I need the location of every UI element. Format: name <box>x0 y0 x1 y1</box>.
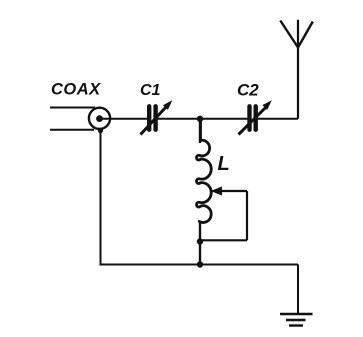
capacitor C1 left plate <box>147 106 151 129</box>
tap wire horizontal <box>218 190 247 192</box>
wire: C1 to C2 <box>158 118 248 120</box>
wire: right vertical to ground <box>297 265 299 314</box>
node: top junction of L <box>197 116 203 122</box>
tap arrow head <box>211 187 223 196</box>
capacitor C1 right plate <box>153 106 157 129</box>
coax connector J1 center pin dot <box>96 115 103 122</box>
svg-text:C1: C1 <box>140 82 161 99</box>
wire: left vertical from coax down <box>100 129 102 265</box>
node: coil bottom / tap return junction <box>197 238 203 244</box>
coax cable bottom line <box>50 129 94 131</box>
ground symbol top bar <box>280 313 313 316</box>
svg-text:L: L <box>218 153 230 175</box>
ground symbol bottom bar <box>289 324 303 326</box>
tap wire right vertical <box>246 191 248 240</box>
antenna right prong <box>298 22 313 48</box>
wire: coil bottom down <box>199 221 201 265</box>
coax connector J1 shield circle <box>89 108 110 129</box>
tap wire bottom horizontal <box>200 239 247 241</box>
wire: C2 to antenna corner <box>258 118 299 120</box>
wire: coax pin to C1 <box>100 118 148 120</box>
capacitor C1 variable arrow <box>141 100 173 134</box>
wire: bottom horizontal <box>100 264 299 266</box>
capacitor C2 left plate <box>247 106 251 129</box>
inductor L coil <box>197 120 212 222</box>
node: bottom wire junction <box>197 261 203 267</box>
svg-text:COAX: COAX <box>51 81 101 99</box>
wire: junction down to coil <box>199 119 201 143</box>
ground symbol middle bar <box>286 319 306 321</box>
svg-text:C2: C2 <box>237 81 259 100</box>
capacitor C2 variable arrow <box>239 100 272 134</box>
coax cable top line <box>50 107 95 109</box>
antenna left prong <box>280 21 298 48</box>
antenna mast <box>297 20 299 119</box>
junction at connector bottom <box>98 128 103 133</box>
capacitor C2 right plate <box>253 106 257 129</box>
